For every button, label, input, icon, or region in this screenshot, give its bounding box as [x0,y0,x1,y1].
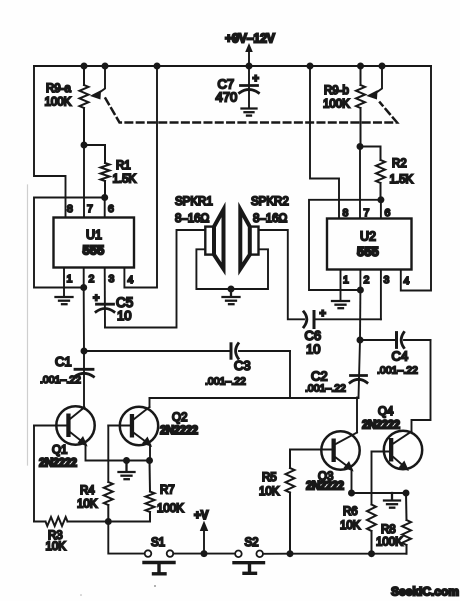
svg-text:2: 2 [364,274,370,286]
wire S2 to bottom right rail [263,553,407,555]
svg-text:7: 7 [87,203,93,215]
capacitor C2 [350,340,367,398]
switch S2 [234,551,264,574]
node R3/R4/R7 junction [105,518,112,525]
resistor R7 [108,461,154,522]
wire R9-b bottom to pin 7 of U2 [359,147,361,219]
capacitor C3 [84,344,290,359]
capacitor C4 [360,332,431,347]
svg-text:.001–.22: .001–.22 [377,365,418,377]
node R9-a top [81,63,88,70]
transistor Q3 [321,431,359,470]
capacitor C5 [96,268,114,328]
wire C4 right lead down to Q4 collector [412,340,431,432]
svg-text:S1: S1 [151,537,165,549]
ground center speakers [223,289,240,304]
wire U2 pin 3 stub to C6 lead [380,270,382,320]
wire pin6 line to left and down to pin2 line [34,198,105,288]
wire Q2 collector riser [149,398,151,407]
wire SPKR2 top terminal down to C6 [259,230,305,319]
svg-text:10K: 10K [46,541,67,553]
wire Q2/Q3 collector coupling line [150,397,359,399]
node R2 bottom / U2 pin 6 [377,196,384,203]
svg-text:R5: R5 [262,472,277,484]
svg-text:2N2222: 2N2222 [306,481,344,493]
svg-text:SPKR1: SPKR1 [175,196,213,208]
node ground tap left [123,457,130,464]
resistor R4 [104,482,113,522]
svg-text:1.5K: 1.5K [113,174,137,186]
svg-text:S2: S2 [245,537,259,549]
wire U1 pin 2 stub [83,268,85,288]
R9-b wiper arrow [368,66,383,99]
svg-text:.001–.22: .001–.22 [205,376,246,388]
capacitor C6 [304,312,381,328]
svg-text:8–16Ω: 8–16Ω [175,213,210,225]
wire U1 pin 1 to ground [63,268,65,297]
node U2 pin2 [357,287,364,294]
svg-text:2N2222: 2N2222 [362,420,400,432]
resistor R2 [360,147,385,200]
wire R9-a bottom to pin 7 of U1 [83,145,85,218]
node U2 pin8 riser top [307,63,314,70]
resistor R9-a [80,66,89,145]
wire Q2 base riser through R4 [107,426,109,483]
wire U2 pin 6 stub [380,200,382,219]
ground U1 pin 1 [56,297,73,304]
svg-text:C4: C4 [392,349,409,364]
speaker SPKR1 [205,210,223,270]
svg-text:C3: C3 [234,358,251,373]
svg-text:6: 6 [385,207,391,219]
svg-text:4: 4 [128,274,134,286]
ground U2 pin 1 [332,301,349,308]
svg-text:1.5K: 1.5K [390,174,414,186]
resistor R9-b [356,66,365,147]
wire supply arrow shaft [248,51,250,66]
svg-text:Q1: Q1 [52,445,67,457]
wire right emitter line [352,492,407,494]
node Q4 emitter [403,490,410,497]
node Q2 emitter [146,457,153,464]
svg-text:.001–.22: .001–.22 [305,383,346,395]
svg-text:R1: R1 [116,160,131,172]
svg-text:R9-b: R9-b [324,85,349,97]
ground right emitters [384,493,400,508]
capacitor C1 [75,351,94,408]
wire left border V+ down to pin 8 of U1 [34,66,66,218]
svg-text:555: 555 [357,244,379,259]
svg-text:C1: C1 [55,354,72,369]
wire C5 to SPKR1 [105,230,205,328]
svg-text:R6: R6 [343,506,358,518]
node +V tap [201,550,208,557]
node Q3 emitter [348,490,355,497]
wire R5 top to Q3 base [290,449,332,451]
node R9-b top [357,63,364,70]
node R9-a / R1 junction [81,142,88,149]
node C1 / C3 junction [81,348,88,355]
IC U1 555 [54,218,135,268]
speck [154,585,156,587]
IC U2 555 [327,219,412,270]
wire U2 pin 1 to ground [340,270,342,301]
transistor Q4 [372,431,423,470]
svg-text:R7: R7 [160,485,175,497]
svg-text:R9-a: R9-a [46,83,72,95]
svg-text:R4: R4 [80,485,95,497]
wire U1 pin2 down to C1/C3 node [83,288,85,352]
wire Q1 emitter down and to Q2 emitter [86,444,151,460]
ground below C7 [242,109,257,116]
speck 2 [80,594,82,596]
svg-text:SPKR2: SPKR2 [251,196,289,208]
speaker SPKR2 [240,210,258,270]
wire SPKR1 bottom terminal to center ground node [196,249,231,289]
wire Q3 collector riser [356,398,358,433]
svg-text:+V: +V [194,510,209,522]
+V arrow [201,522,208,554]
svg-text:R8: R8 [381,524,396,536]
svg-text:1: 1 [343,274,349,286]
svg-text:100K: 100K [157,503,184,515]
svg-text:U2: U2 [360,230,376,244]
node center speaker ground [228,286,235,293]
svg-text:8: 8 [343,207,349,219]
svg-text:+: + [93,293,99,305]
node C4 / C2 junction [357,337,364,344]
svg-text:+9V–12V: +9V–12V [225,32,276,46]
svg-text:2: 2 [89,273,95,285]
node supply entry [246,63,253,70]
svg-text:3: 3 [109,273,115,285]
svg-text:100K: 100K [323,99,350,111]
svg-text:100K: 100K [45,97,72,109]
wire Q1 base to R3 [33,426,35,522]
wire S1 to +V node [173,553,235,555]
resistor R8 [402,493,411,554]
svg-text:C2: C2 [311,369,328,384]
svg-text:+: + [253,73,259,85]
svg-text:4: 4 [404,275,410,287]
resistor R5 [286,450,295,554]
resistor R3 [34,517,108,526]
node R5 bottom [287,550,294,557]
wire junction down to S1 [108,522,144,554]
wire Q2 emitter to junction [149,445,151,461]
node pin4 riser top [154,63,161,70]
node R9-b / R2 junction [357,143,364,150]
resistor R1 [84,145,110,198]
wire U2 pin 8 riser and jog [310,66,339,219]
wire center node to SPKR2 bottom terminal [231,249,268,289]
supply arrow head [245,43,253,52]
node R6 bottom [368,550,375,557]
svg-text:1: 1 [67,273,73,285]
svg-text:R2: R2 [392,158,407,170]
wire U2 pin 2 stub [359,270,361,291]
svg-text:SeekIC.com: SeekIC.com [391,585,459,599]
wire top supply rail [34,65,431,67]
wire Q4 base riser through R6 [371,452,373,505]
svg-text:555: 555 [83,243,105,258]
R9-a wiper arrow [91,66,105,99]
svg-text:10K: 10K [340,520,361,532]
svg-text:10: 10 [306,342,320,357]
scan artifact faint line [27,185,29,465]
ground left emitters [119,461,135,480]
wire Q3 emitter down [351,469,353,493]
node R9-a wiper top [102,63,109,70]
svg-text:7: 7 [364,207,370,219]
svg-text:2N2222: 2N2222 [39,458,77,470]
node R9-b wiper top [379,63,386,70]
dashed gang linkage between R9-a and R9-b [106,99,398,123]
svg-text:U1: U1 [86,228,102,242]
wire U2 pin2 down to C4/C2 node [359,290,361,340]
wire pin 6 stub [104,198,106,218]
svg-text:Q4: Q4 [378,406,394,418]
svg-text:3: 3 [384,274,390,286]
svg-text:10: 10 [117,308,131,323]
transistor Q2 [108,407,158,446]
svg-text:Q2: Q2 [172,412,187,424]
svg-text:10K: 10K [259,486,280,498]
switch S1 [144,550,174,574]
svg-text:8: 8 [67,203,73,215]
wire U1 pin 4 jog to rail riser [124,66,157,288]
svg-text:6: 6 [108,203,114,215]
svg-text:8–16Ω: 8–16Ω [253,213,288,225]
wire right border V+ down to pin 4 jog of U2 [401,66,431,291]
svg-text:.001–.22: .001–.22 [40,374,81,386]
node U1 pin2 [80,284,87,291]
svg-text:100K: 100K [376,537,403,549]
transistor Q1 [34,406,95,445]
wire U2 pin6 line to left and down to pin2 line [309,200,381,290]
node R1 bottom / pin 6 [101,194,108,201]
resistor R6 [367,505,376,554]
svg-text:2N2222: 2N2222 [160,425,198,437]
wire C3 right lead down to collector line [289,351,291,398]
svg-text:10K: 10K [77,499,98,511]
capacitor C7 [240,66,259,108]
svg-text:+: + [320,308,326,320]
svg-text:470: 470 [216,90,238,105]
